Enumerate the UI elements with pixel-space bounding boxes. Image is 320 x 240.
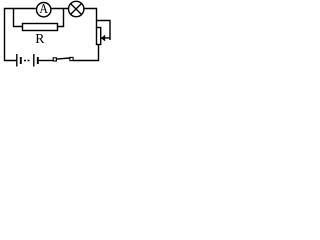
svg-text:R: R xyxy=(35,31,45,46)
wire lamp right, corner down to rheostat top xyxy=(84,9,97,28)
lamp L1 circle xyxy=(69,1,84,16)
resistor R1 body xyxy=(23,24,58,31)
wire resistor R right terminal up to top wire junction xyxy=(58,9,64,27)
switch S1 terminal left xyxy=(53,58,56,61)
svg-text:A: A xyxy=(39,0,48,16)
wire ammeter to lamp xyxy=(51,8,68,10)
rheostat body xyxy=(97,28,101,45)
wire left outer loop: top wire to ammeter, left vertical, bottom-left corner xyxy=(5,9,36,61)
battery dashed link xyxy=(24,60,30,62)
wire wiper feed: junction right, down right side, to wiper xyxy=(97,21,111,41)
battery cell 1 positive long plate xyxy=(16,54,18,67)
battery cell 2 negative short plate xyxy=(37,57,39,64)
lamp L1 cross xyxy=(71,4,82,15)
battery cell 1 negative short plate xyxy=(20,57,22,64)
wire switch to battery xyxy=(38,60,53,62)
wire branch from top wire down to resistor R left terminal xyxy=(14,9,23,27)
ammeter U1 circle xyxy=(37,3,51,17)
battery cell 2 positive long plate xyxy=(33,54,35,67)
switch S1 blade xyxy=(57,58,70,59)
wiper arrow head xyxy=(101,35,105,42)
switch S1 terminal right xyxy=(70,57,73,60)
wire rheostat bottom terminal down and left to switch xyxy=(73,45,99,61)
